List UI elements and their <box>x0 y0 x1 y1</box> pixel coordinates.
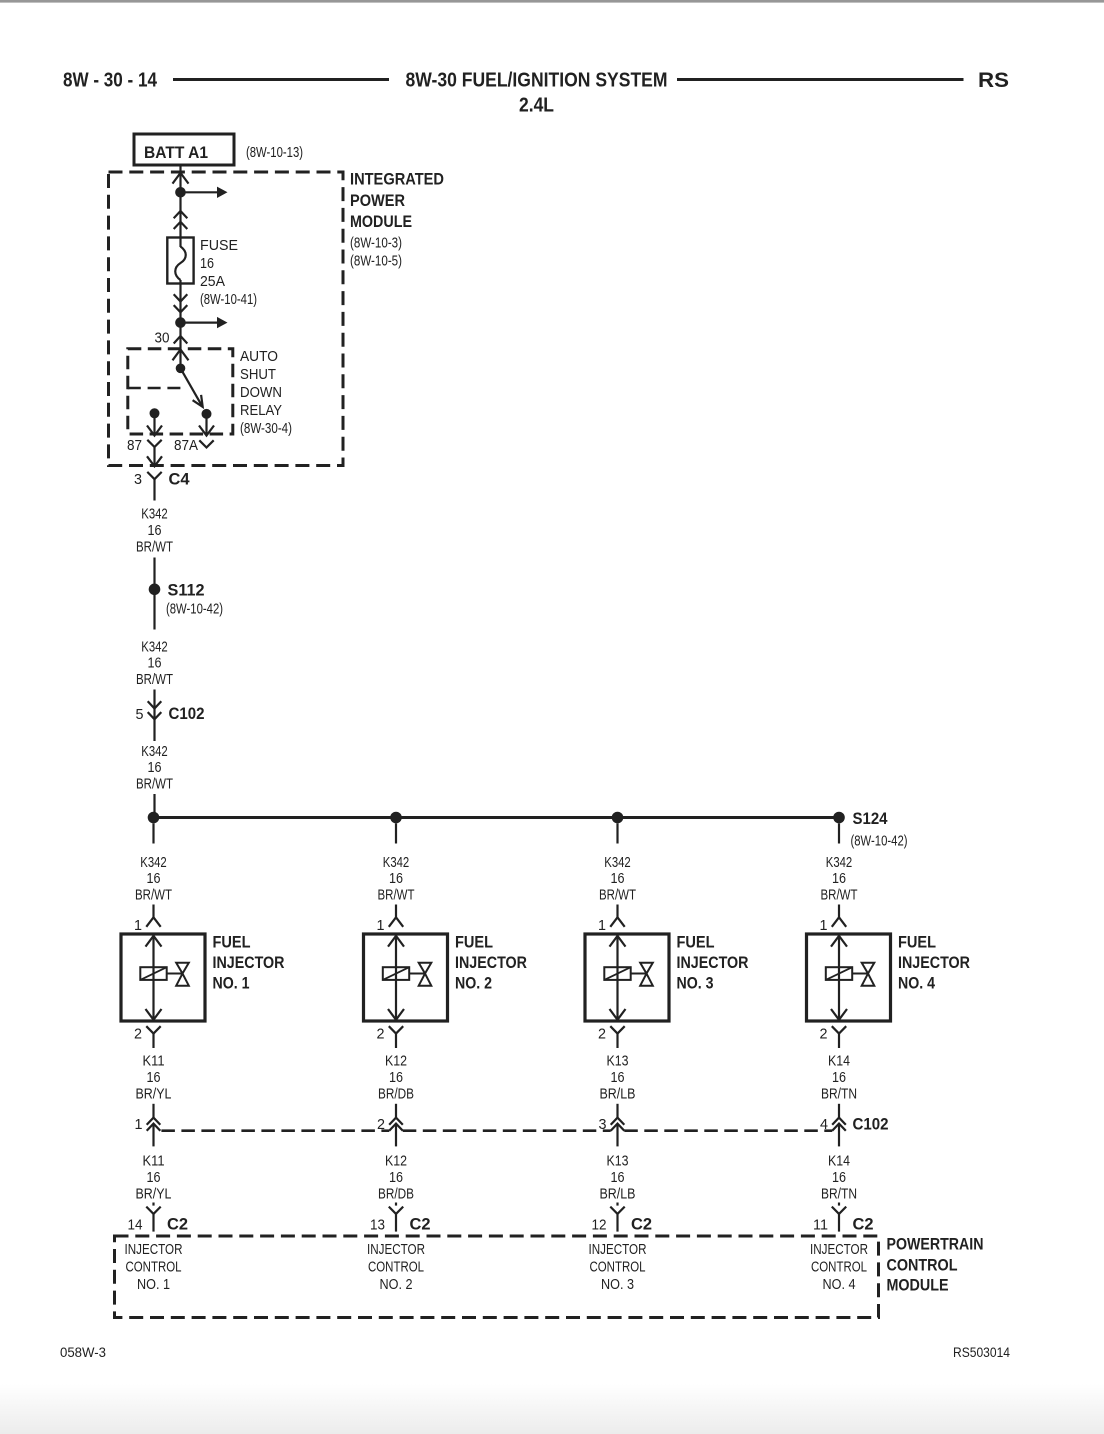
connector pin 1 into injector 2 <box>395 905 397 918</box>
wire fuse to relay <box>179 280 181 368</box>
injector 3 internal wire <box>616 936 618 1020</box>
connector C102 pin 3 double chevron <box>611 1118 625 1147</box>
wire to C102 <box>153 690 155 709</box>
connector C102 pin 5 double chevron <box>148 701 162 741</box>
svg-text:NO. 3: NO. 3 <box>677 974 714 993</box>
svg-text:CONTROL: CONTROL <box>126 1259 182 1275</box>
relay coil dashed line <box>128 387 184 390</box>
connector pin 1 into injector 4 <box>838 905 840 918</box>
svg-text:1: 1 <box>598 918 606 934</box>
svg-text:INJECTOR: INJECTOR <box>677 953 749 972</box>
page bottom shading <box>0 1384 1104 1434</box>
injector 1 arrowhead in <box>146 936 162 947</box>
svg-text:C2: C2 <box>410 1215 431 1234</box>
svg-text:FUEL: FUEL <box>898 933 936 952</box>
connector pin 1 into injector 1 <box>152 905 154 918</box>
wire to C102 pin 3 <box>616 1104 618 1118</box>
injector 4 valve (bowtie) <box>862 963 875 986</box>
connector C102 pin 2 double chevron <box>389 1118 403 1147</box>
wire 87 to relay edge <box>153 413 155 435</box>
svg-text:K12: K12 <box>385 1154 407 1170</box>
svg-text:1: 1 <box>135 1117 143 1133</box>
svg-text:87A: 87A <box>174 438 198 454</box>
injector 3 coil <box>604 967 630 980</box>
wire bus to injector 4 stub <box>838 823 840 843</box>
svg-text:(8W-30-4): (8W-30-4) <box>240 421 292 437</box>
svg-text:RELAY: RELAY <box>240 403 282 419</box>
svg-text:NO. 1: NO. 1 <box>137 1277 170 1293</box>
label FUEL INJECTOR NO. 4 <box>898 933 970 993</box>
svg-text:(8W-10-42): (8W-10-42) <box>851 834 908 850</box>
header rule right <box>677 78 964 81</box>
injector 3 arrowhead out <box>610 1009 626 1020</box>
svg-text:BR/LB: BR/LB <box>600 1086 636 1102</box>
svg-text:(8W-10-5): (8W-10-5) <box>350 254 402 270</box>
svg-text:16: 16 <box>389 871 403 887</box>
splice S112 <box>149 584 161 596</box>
wire to C2 pin 14 <box>152 1203 154 1206</box>
fuel injector no. 4 box <box>807 934 891 1021</box>
svg-text:12: 12 <box>592 1217 607 1233</box>
fuel injector no. 2 box <box>364 934 448 1021</box>
connector chevron 87A <box>199 440 213 447</box>
svg-text:MODULE: MODULE <box>887 1275 949 1294</box>
injector 2 arrowhead out <box>388 1009 404 1020</box>
label INJECTOR CONTROL NO. 3 <box>589 1242 647 1293</box>
svg-text:BR/LB: BR/LB <box>600 1186 636 1202</box>
svg-text:POWERTRAIN: POWERTRAIN <box>887 1235 984 1254</box>
wire label K342 16 BR/WT column 1 <box>135 855 172 904</box>
wire to C2 pin 11 <box>838 1203 840 1206</box>
wire to splice S112 <box>153 558 155 590</box>
wire label K11 16 BR/YL (lower) <box>136 1154 172 1203</box>
arrowhead at IPM bottom edge <box>147 456 162 466</box>
bus junction dot column 1 <box>148 812 160 824</box>
svg-text:1: 1 <box>820 918 828 934</box>
svg-text:BR/DB: BR/DB <box>378 1086 414 1102</box>
svg-text:(8W-10-13): (8W-10-13) <box>246 145 303 161</box>
wire label K12 16 BR/DB (lower) <box>378 1154 414 1203</box>
svg-text:16: 16 <box>148 760 162 776</box>
injector 3 arrowhead in <box>610 936 626 947</box>
injector 1 internal wire <box>152 936 154 1020</box>
svg-text:16: 16 <box>148 656 162 672</box>
wire label K14 16 BR/TN (lower) <box>821 1154 857 1203</box>
svg-text:CONTROL: CONTROL <box>590 1259 646 1275</box>
svg-text:NO. 3: NO. 3 <box>601 1277 634 1293</box>
connector pin 1 into injector 3 <box>616 905 618 918</box>
wire bus to injector 1 stub <box>152 823 154 843</box>
module box INTEGRATED POWER MODULE (dashed) <box>109 172 344 466</box>
connector pin 2 from injector 2 <box>389 1026 403 1033</box>
svg-text:INJECTOR: INJECTOR <box>455 953 527 972</box>
svg-text:25A: 25A <box>200 274 225 290</box>
fuse FUSE 16 25A <box>167 238 193 284</box>
svg-text:K342: K342 <box>141 744 168 760</box>
svg-text:BR/TN: BR/TN <box>821 1086 857 1102</box>
svg-text:S124: S124 <box>853 809 888 828</box>
wire to C102 pin 1 <box>152 1104 154 1118</box>
svg-text:K342: K342 <box>604 855 631 871</box>
svg-text:8W-30 FUEL/IGNITION SYSTEM: 8W-30 FUEL/IGNITION SYSTEM <box>406 70 668 92</box>
wire to C102 pin 4 <box>838 1104 840 1118</box>
svg-text:K342: K342 <box>140 855 167 871</box>
connector pin 2 from injector 1 <box>146 1026 160 1033</box>
svg-text:FUEL: FUEL <box>455 933 493 952</box>
relay common pivot dot <box>176 364 186 374</box>
injector 1 valve link <box>167 973 183 975</box>
injector 4 internal wire <box>838 936 840 1020</box>
svg-text:NO. 1: NO. 1 <box>213 974 250 993</box>
svg-text:16: 16 <box>611 1170 625 1186</box>
wire label K342 16 BR/WT (3) <box>136 744 173 793</box>
svg-text:POWER: POWER <box>350 191 405 210</box>
wire label K13 16 BR/LB (lower) <box>600 1154 636 1203</box>
connector C2 pin 11 <box>832 1207 846 1214</box>
svg-text:BR/YL: BR/YL <box>136 1086 172 1102</box>
label FUEL INJECTOR NO. 2 <box>455 933 527 993</box>
junction dot below BATT <box>175 187 186 198</box>
injector 2 internal wire <box>395 936 397 1020</box>
injector 4 arrowhead out <box>831 1009 847 1020</box>
relay switch arm to 87A <box>181 368 203 407</box>
injector 3 valve link <box>631 973 647 975</box>
injector 4 arrowhead in <box>831 936 847 947</box>
inline connector double chevron below fuse <box>174 294 188 312</box>
svg-text:K12: K12 <box>385 1054 407 1070</box>
bus junction dot column 2 <box>390 812 402 824</box>
svg-text:RS: RS <box>978 69 1009 92</box>
relay contact dot 87 <box>150 408 160 418</box>
svg-text:INJECTOR: INJECTOR <box>589 1242 647 1258</box>
svg-text:30: 30 <box>155 331 170 347</box>
svg-text:CONTROL: CONTROL <box>368 1259 424 1275</box>
injector 1 coil <box>140 967 166 980</box>
relay AUTO SHUT DOWN RELAY box (dashed) <box>128 349 233 434</box>
svg-text:INJECTOR: INJECTOR <box>213 953 285 972</box>
svg-text:K342: K342 <box>826 855 853 871</box>
svg-text:BR/WT: BR/WT <box>135 887 172 903</box>
connector C102 pin 1 double chevron <box>147 1118 161 1147</box>
wire 87A to relay edge <box>205 414 207 435</box>
wire label K342 16 BR/WT column 2 <box>378 855 415 904</box>
svg-text:3: 3 <box>134 472 142 488</box>
svg-text:DOWN: DOWN <box>240 385 282 401</box>
svg-text:NO. 2: NO. 2 <box>455 974 492 993</box>
injector 2 coil <box>383 967 409 980</box>
inline connector double chevron above fuse <box>174 211 188 229</box>
injector 2 valve link <box>409 973 425 975</box>
svg-text:058W-3: 058W-3 <box>60 1345 106 1360</box>
svg-text:16: 16 <box>147 1070 161 1086</box>
svg-text:C2: C2 <box>631 1215 652 1234</box>
svg-text:K14: K14 <box>828 1054 850 1070</box>
label INTEGRATED POWER MODULE <box>350 170 444 270</box>
svg-text:K342: K342 <box>141 640 168 656</box>
svg-text:K11: K11 <box>143 1154 165 1170</box>
svg-text:2: 2 <box>820 1027 828 1043</box>
svg-text:FUEL: FUEL <box>677 933 715 952</box>
injector 2 valve (bowtie) <box>419 963 432 986</box>
svg-text:BR/YL: BR/YL <box>136 1186 172 1202</box>
svg-text:INJECTOR: INJECTOR <box>810 1242 868 1258</box>
svg-text:FUSE: FUSE <box>200 238 238 254</box>
svg-text:K13: K13 <box>607 1054 629 1070</box>
svg-text:SHUT: SHUT <box>240 367 276 383</box>
svg-text:BR/WT: BR/WT <box>821 887 858 903</box>
branch arrow right (second feed) <box>181 317 228 328</box>
svg-text:INJECTOR: INJECTOR <box>367 1242 425 1258</box>
svg-text:C102: C102 <box>169 704 205 723</box>
module box POWERTRAIN CONTROL MODULE (dashed) <box>115 1236 879 1318</box>
fuel injector no. 1 box <box>121 934 205 1021</box>
wire label K11 16 BR/YL (upper) <box>136 1054 172 1103</box>
connector pin 2 from injector 3 <box>610 1026 624 1033</box>
label INJECTOR CONTROL NO. 2 <box>367 1242 425 1293</box>
connector C2 pin 12 <box>610 1207 624 1214</box>
label FUEL INJECTOR NO. 3 <box>677 933 749 993</box>
svg-text:2: 2 <box>134 1027 142 1043</box>
svg-text:CONTROL: CONTROL <box>811 1259 867 1275</box>
wire bus to injector 2 stub <box>395 823 397 843</box>
svg-text:FUEL: FUEL <box>213 933 251 952</box>
svg-text:1: 1 <box>134 918 142 934</box>
svg-text:AUTO: AUTO <box>240 349 278 365</box>
injector 4 coil <box>826 967 852 980</box>
svg-text:16: 16 <box>200 256 214 272</box>
connector C102 pin 4 double chevron <box>832 1118 846 1147</box>
svg-text:1: 1 <box>377 918 385 934</box>
svg-text:16: 16 <box>147 1170 161 1186</box>
svg-text:BR/WT: BR/WT <box>136 539 173 555</box>
label INJECTOR CONTROL NO. 1 <box>125 1242 183 1293</box>
svg-text:2: 2 <box>377 1027 385 1043</box>
svg-text:(8W-10-42): (8W-10-42) <box>166 602 223 618</box>
connector chevron 87 <box>147 440 161 466</box>
svg-text:C2: C2 <box>853 1215 874 1234</box>
wire to bus <box>153 794 155 818</box>
injector 4 valve link <box>852 973 868 975</box>
svg-text:BR/WT: BR/WT <box>136 777 173 793</box>
svg-text:14: 14 <box>128 1217 143 1233</box>
label FUSE 16 25A (8W-10-41) <box>200 238 257 308</box>
connector C102 dashed boundary line <box>161 1129 832 1132</box>
injector 2 arrowhead in <box>388 936 404 947</box>
svg-text:NO. 4: NO. 4 <box>823 1277 856 1293</box>
wire bus to injector 3 stub <box>616 823 618 843</box>
splice S124 dot <box>833 812 845 824</box>
wire to C2 pin 13 <box>395 1203 397 1206</box>
svg-text:13: 13 <box>370 1217 385 1233</box>
wire label K342 16 BR/WT (1) <box>136 507 173 556</box>
relay pin 30 arrowhead inside <box>173 350 189 361</box>
svg-text:CONTROL: CONTROL <box>887 1255 958 1274</box>
connector C2 pin 14 <box>146 1207 160 1214</box>
svg-text:BR/WT: BR/WT <box>378 887 415 903</box>
svg-text:K14: K14 <box>828 1154 850 1170</box>
svg-text:NO. 2: NO. 2 <box>380 1277 413 1293</box>
wire label K342 16 BR/WT (2) <box>136 640 173 689</box>
svg-text:BR/WT: BR/WT <box>136 672 173 688</box>
svg-text:C102: C102 <box>853 1114 889 1133</box>
svg-text:16: 16 <box>389 1170 403 1186</box>
arrowhead 87A at relay edge <box>199 426 214 436</box>
bus junction dot column 3 <box>612 812 624 824</box>
svg-text:K13: K13 <box>607 1154 629 1170</box>
svg-text:BR/DB: BR/DB <box>378 1186 414 1202</box>
svg-text:K11: K11 <box>143 1054 165 1070</box>
svg-text:16: 16 <box>611 1070 625 1086</box>
wire S112 down <box>153 589 155 630</box>
svg-text:16: 16 <box>832 1170 846 1186</box>
svg-text:BR/TN: BR/TN <box>821 1186 857 1202</box>
label S112 (8W-10-42) <box>166 581 223 618</box>
wire BATT A1 to fuse <box>179 165 181 247</box>
wire label K13 16 BR/LB (upper) <box>600 1054 636 1103</box>
svg-text:16: 16 <box>389 1070 403 1086</box>
relay contact dot 87A <box>202 409 212 419</box>
junction dot above relay <box>175 317 186 328</box>
svg-text:87: 87 <box>127 438 142 454</box>
connector C4 pin 3 <box>147 472 161 479</box>
label FUEL INJECTOR NO. 1 <box>213 933 285 993</box>
svg-text:16: 16 <box>148 523 162 539</box>
label POWERTRAIN CONTROL MODULE <box>887 1235 984 1295</box>
svg-text:NO. 4: NO. 4 <box>898 974 935 993</box>
bus wire to splice S124 <box>154 816 840 819</box>
wire to C102 pin 2 <box>395 1104 397 1118</box>
svg-text:INTEGRATED: INTEGRATED <box>350 170 444 189</box>
injector 3 valve (bowtie) <box>640 963 653 986</box>
svg-text:C2: C2 <box>167 1215 188 1234</box>
svg-text:5: 5 <box>136 707 144 723</box>
wire label K342 16 BR/WT column 4 <box>821 855 858 904</box>
svg-text:K342: K342 <box>141 507 168 523</box>
svg-text:RS503014: RS503014 <box>953 1345 1010 1360</box>
svg-text:(8W-10-41): (8W-10-41) <box>200 292 257 308</box>
svg-text:INJECTOR: INJECTOR <box>898 953 970 972</box>
connector pin 2 from injector 4 <box>832 1026 846 1033</box>
svg-text:INJECTOR: INJECTOR <box>125 1242 183 1258</box>
battery feed BATT A1 box <box>134 134 234 165</box>
arrowhead 87 at relay edge <box>147 426 162 436</box>
svg-text:BR/WT: BR/WT <box>599 887 636 903</box>
label INJECTOR CONTROL NO. 4 <box>810 1242 868 1293</box>
connector C2 pin 13 <box>389 1207 403 1214</box>
injector 1 arrowhead out <box>146 1009 162 1020</box>
svg-text:16: 16 <box>832 1070 846 1086</box>
wire to C2 pin 12 <box>616 1203 618 1206</box>
label S124 (8W-10-42) <box>851 809 908 850</box>
wire label K14 16 BR/TN (upper) <box>821 1054 857 1103</box>
svg-text:MODULE: MODULE <box>350 212 412 231</box>
svg-text:16: 16 <box>147 871 161 887</box>
svg-text:S112: S112 <box>168 581 205 600</box>
svg-text:2.4L: 2.4L <box>519 95 554 117</box>
label AUTO SHUT DOWN RELAY (8W-30-4) <box>240 349 292 437</box>
svg-text:11: 11 <box>813 1217 828 1233</box>
fuel injector no. 3 box <box>585 934 669 1021</box>
arrowhead into IPM at top <box>173 173 189 184</box>
page top edge line <box>0 0 1104 3</box>
svg-text:16: 16 <box>611 871 625 887</box>
svg-text:8W - 30 - 14: 8W - 30 - 14 <box>63 70 158 92</box>
wire label K12 16 BR/DB (upper) <box>378 1054 414 1103</box>
branch arrow right (feed to other circuits) <box>181 187 228 198</box>
injector 1 valve (bowtie) <box>176 963 189 986</box>
svg-text:16: 16 <box>832 871 846 887</box>
svg-text:BATT A1: BATT A1 <box>144 143 208 162</box>
relay pin 30 chevron <box>174 336 188 344</box>
wire label K342 16 BR/WT column 3 <box>599 855 636 904</box>
header rule left <box>173 78 389 81</box>
svg-text:K342: K342 <box>383 855 410 871</box>
svg-text:(8W-10-3): (8W-10-3) <box>350 236 402 252</box>
svg-text:C4: C4 <box>169 470 191 489</box>
svg-text:2: 2 <box>598 1027 606 1043</box>
